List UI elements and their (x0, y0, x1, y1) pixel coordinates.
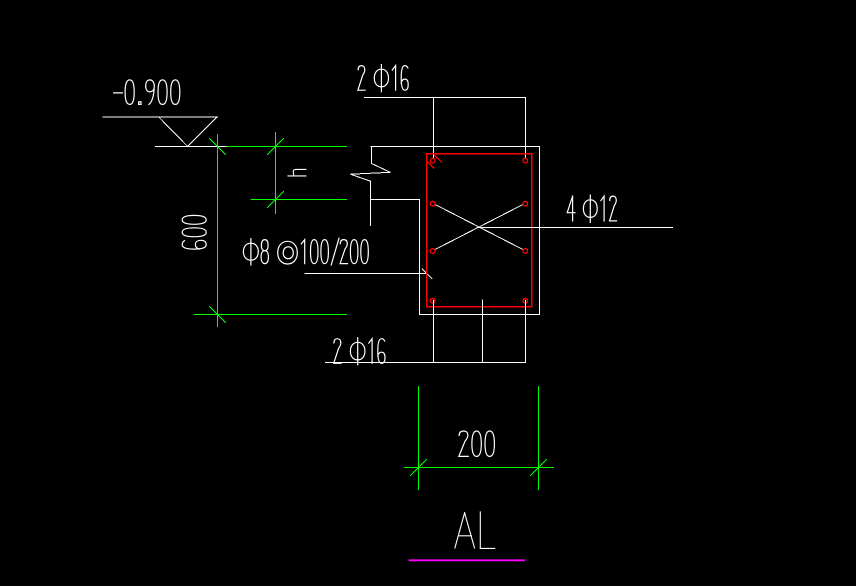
label 2phi16 top text (358, 65, 408, 92)
title AL text (455, 512, 495, 549)
label phi8@100/200 text (243, 238, 368, 265)
label 4phi12 text (567, 195, 616, 222)
dim 200 text (459, 431, 495, 456)
label 2phi16 top leader line (365, 97, 526, 99)
elevation marker triangle right side (188, 117, 218, 146)
break line zigzag (351, 164, 391, 182)
dim 200 left extension line (418, 387, 420, 490)
elevation label -0.900 (114, 80, 180, 105)
dim h top tick (268, 139, 284, 155)
dim 600 bottom tick (210, 307, 226, 323)
leader X line 2 (435, 205, 522, 250)
stirrup hook upper leg (435, 155, 442, 162)
rebar circle mid-upper-right (523, 201, 528, 206)
label 2phi16 bottom leader line (326, 362, 526, 364)
section outline left edge (419, 200, 421, 315)
bottom-right drop line (525, 301, 527, 363)
elevation marker triangle left side (159, 117, 188, 146)
label 4phi12 leader line (477, 227, 673, 229)
dim 600 text (182, 215, 206, 249)
rebar circle mid-upper-left (430, 201, 435, 206)
dim 600 bottom extension line (194, 314, 347, 316)
rebar circle bottom-left (430, 299, 435, 304)
slab underside line (371, 199, 420, 201)
rebar circle top-left (430, 158, 435, 163)
section outline right edge (539, 147, 541, 315)
rebar circle mid-lower-left (430, 249, 435, 254)
dim h lower extension line (251, 199, 347, 201)
label phi8 leader line (305, 273, 426, 275)
rebar circle bottom-right (523, 299, 528, 304)
dim h text (288, 169, 306, 176)
rebar circle top-right (523, 158, 528, 163)
label 2phi16 bottom text (334, 338, 385, 365)
label 2phi16 left drop line (433, 98, 435, 159)
dim 200 right extension line (538, 387, 540, 490)
dim h vertical dimension line (275, 133, 277, 214)
break line lower vertical (370, 181, 372, 225)
label phi8 leader tick (422, 269, 432, 279)
elevation marker top line (103, 116, 218, 118)
dim 600 vertical dimension line (217, 135, 219, 327)
stirrup rectangle (427, 154, 532, 307)
dim 600 top tick (210, 139, 226, 155)
section outline bottom edge (420, 314, 540, 316)
leader X line 1 (435, 205, 522, 250)
break line upper vertical (371, 147, 373, 164)
dim 600 top extension line (227, 146, 347, 148)
dim h bottom tick (268, 192, 284, 208)
section outline top edge (371, 146, 540, 148)
title underline (410, 559, 525, 561)
dim 200 dimension line (405, 467, 554, 469)
stirrup hook lower leg (427, 161, 434, 168)
label 2phi16 right drop line (525, 98, 527, 158)
bottom-middle drop line (482, 300, 484, 363)
bottom-left drop line (433, 301, 435, 363)
dim 200 left tick (411, 460, 427, 476)
dim 200 right tick (531, 460, 547, 476)
elevation marker apex line (156, 146, 228, 148)
rebar circle mid-lower-right (523, 249, 528, 254)
